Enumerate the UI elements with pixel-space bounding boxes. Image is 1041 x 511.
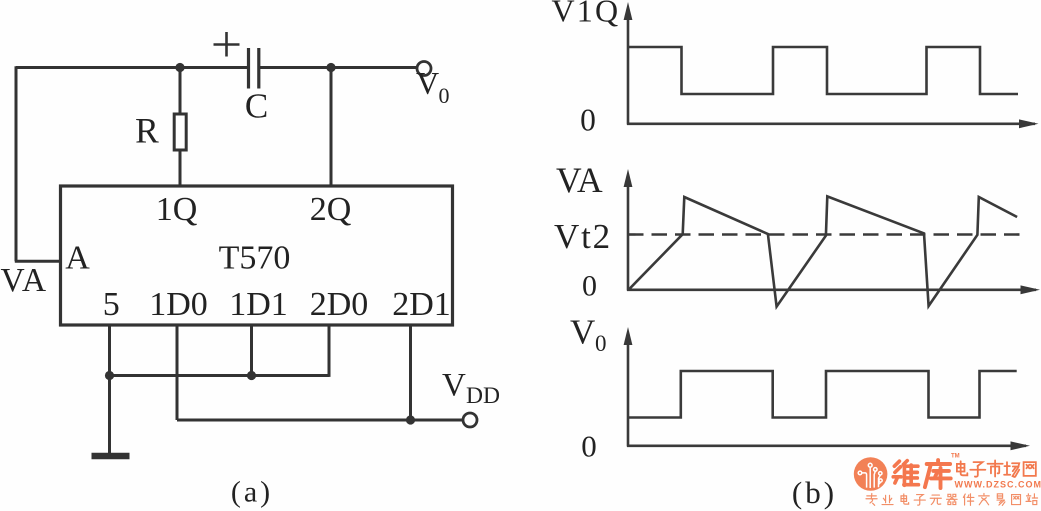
svg-text:C: C (245, 87, 268, 126)
junction node at 2Q / top wire (326, 63, 335, 72)
svg-text:A: A (65, 240, 90, 277)
V0 x-axis (627, 444, 1026, 447)
V0 square wave (629, 371, 1017, 418)
svg-text:2D0: 2D0 (310, 286, 369, 323)
wire: pin 1D0 down (176, 325, 179, 420)
wire: capacitor right plate to V0 terminal (259, 66, 417, 69)
svg-text:1D0: 1D0 (149, 286, 208, 323)
svg-text:TM: TM (951, 454, 960, 460)
svg-text:T570: T570 (219, 240, 291, 277)
junction node at R / top wire (175, 63, 184, 72)
watermark subtitle chars (957, 460, 1036, 477)
wire: top net from feedback corner to capacitor left plate (16, 66, 248, 69)
V1Q square wave (629, 47, 1018, 94)
V1Q x-axis (627, 123, 1035, 126)
svg-text:0: 0 (439, 83, 450, 108)
wire: R top lead (179, 68, 182, 115)
junction node 5/bus (105, 371, 114, 380)
VA threshold dashed line Vt2 (628, 233, 1023, 236)
svg-text:V: V (442, 368, 466, 404)
svg-text:0: 0 (580, 103, 596, 138)
V1Q y-axis (627, 16, 630, 125)
VA x-axis (627, 288, 1036, 291)
V1Q y-axis arrowhead (624, 2, 633, 20)
wire: pin 2D0 down (328, 325, 331, 377)
svg-text:1D1: 1D1 (229, 286, 288, 323)
VA sawtooth wave (629, 196, 1017, 306)
wire: bus joining 5,1D1,2D0 (110, 374, 330, 377)
V0 x-axis arrowhead (1011, 441, 1031, 450)
V0 y-axis (627, 341, 630, 447)
junction node 2D1/bus (406, 415, 415, 424)
ground symbol (92, 453, 130, 460)
wire: left feedback vertical (15, 66, 18, 261)
watermark big title (893, 460, 950, 488)
wire: pin 5 down to ground (108, 325, 111, 454)
svg-text:V: V (416, 65, 439, 101)
svg-text:2Q: 2Q (310, 191, 352, 228)
svg-text:R: R (135, 111, 159, 151)
svg-text:V1Q: V1Q (552, 0, 621, 29)
VA y-axis (627, 183, 630, 291)
VA x-axis arrowhead (1021, 285, 1041, 294)
V1Q x-axis arrowhead (1019, 119, 1039, 128)
svg-text:0: 0 (595, 331, 607, 356)
capacitor polarity + sign (214, 32, 240, 57)
svg-text:2D1: 2D1 (392, 286, 451, 323)
svg-text:VA: VA (556, 160, 603, 200)
svg-text:WWW.DZSC.COM: WWW.DZSC.COM (955, 480, 1041, 490)
capacitor C plates (249, 48, 259, 89)
VA y-axis arrowhead (624, 169, 633, 187)
wire: pin 2D1 down (409, 325, 412, 420)
watermark circle icon (854, 457, 888, 491)
terminal V0 circle (417, 62, 431, 76)
svg-text:1Q: 1Q (156, 191, 198, 228)
junction node 1D1/bus (247, 371, 256, 380)
svg-text:V: V (570, 313, 595, 352)
svg-text:5: 5 (103, 286, 120, 323)
IC U1 T570 box (61, 186, 453, 325)
wire: bus joining 1D0,2D1 to VDD terminal (177, 419, 463, 422)
wire: pin 1D1 down (250, 325, 253, 376)
V0 y-axis arrowhead (624, 327, 633, 345)
wire: 2Q pin vertical (330, 68, 333, 187)
svg-text:0: 0 (581, 429, 597, 464)
watermark tagline chars (866, 494, 1038, 506)
svg-text:(a): (a) (231, 476, 273, 509)
resistor R body (174, 114, 186, 150)
terminal VDD circle (463, 413, 477, 427)
watermark icon circuit tree (858, 463, 882, 488)
svg-text:(b): (b) (792, 475, 837, 510)
svg-text:0: 0 (582, 270, 597, 303)
svg-text:Vt2: Vt2 (554, 217, 612, 256)
svg-text:DD: DD (466, 383, 500, 409)
wire: R bottom lead to 1Q pin (179, 150, 182, 186)
svg-text:VA: VA (0, 262, 47, 299)
wire: A-pin stub (15, 260, 61, 263)
